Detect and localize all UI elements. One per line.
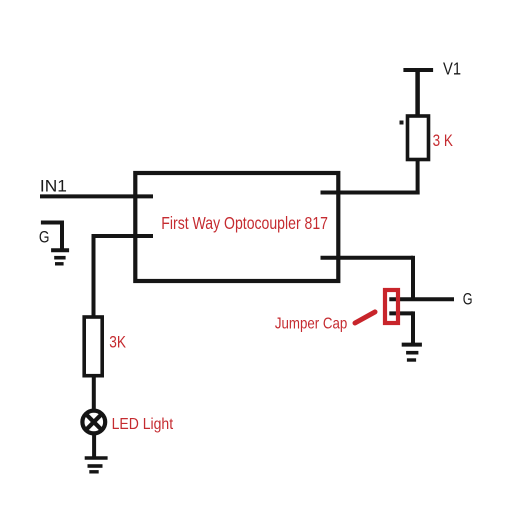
wire pin 2 down to R2 [92, 234, 96, 317]
wire LED to ground [92, 433, 96, 458]
wire IN1 to pin 1 [40, 194, 153, 198]
ground G left [41, 221, 69, 264]
wire pin 3 stub [321, 256, 414, 260]
svg-text:G: G [39, 229, 50, 247]
svg-text:3K: 3K [109, 333, 126, 351]
node dot [400, 121, 404, 125]
wire jumper pin A to G [389, 297, 454, 301]
wire corner to optocoupler pin 4 [321, 191, 420, 195]
wire jumper pin B stub [389, 311, 413, 315]
svg-text:IN1: IN1 [40, 177, 67, 195]
svg-text:LED Light: LED Light [112, 416, 174, 433]
jumper cap J1 [385, 290, 398, 323]
wire pin B down to ground [411, 311, 415, 344]
wire V1 to R1 [415, 68, 420, 118]
wire pin 2 stub [94, 234, 154, 238]
wire R1 to corner [416, 159, 420, 194]
svg-text:3 K: 3 K [433, 132, 453, 150]
svg-text:G: G [463, 290, 473, 309]
svg-text:First Way Optocoupler 817: First Way Optocoupler 817 [161, 213, 328, 233]
svg-text:Jumper Cap: Jumper Cap [275, 316, 347, 333]
ground below LED [85, 458, 108, 472]
wire R2 to LED [92, 376, 96, 411]
svg-text:V1: V1 [443, 59, 461, 79]
power rail V1 [403, 68, 433, 72]
optocoupler U1 First Way Optocoupler 817 [135, 173, 338, 281]
wire pin 3 down [411, 256, 415, 299]
ground right [402, 345, 422, 360]
resistor R1 [408, 116, 429, 160]
pointer line from Jumper Cap label [355, 312, 375, 323]
LED D1 lamp symbol [82, 411, 105, 434]
resistor R2 [84, 317, 102, 376]
